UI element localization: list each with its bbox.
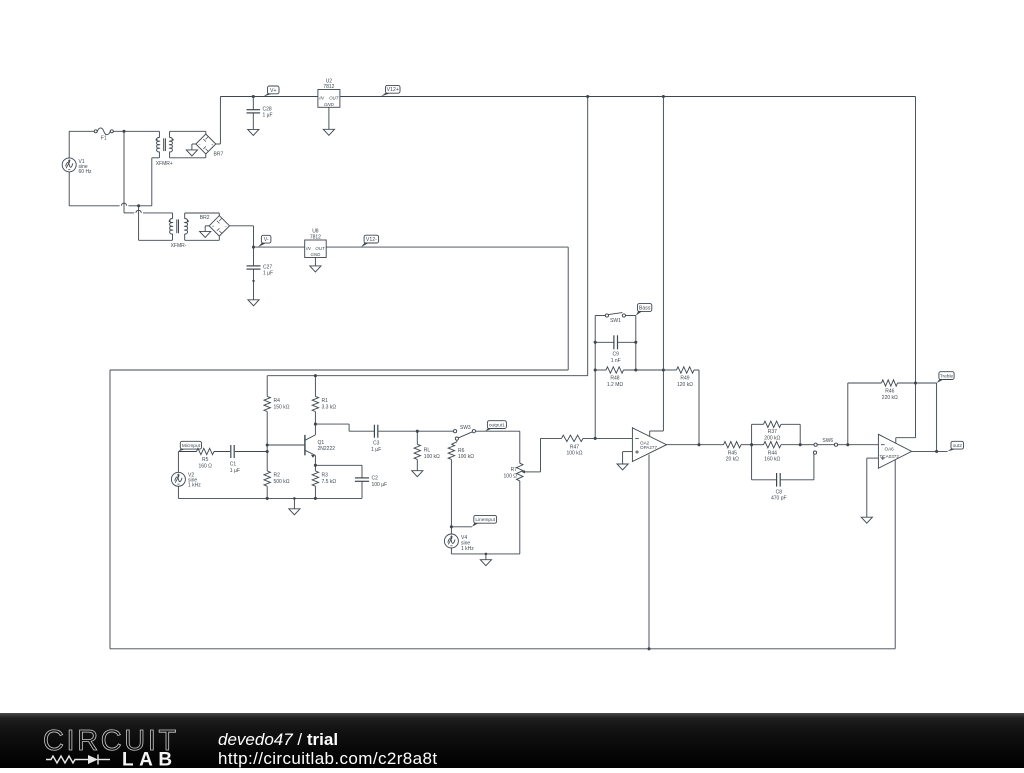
svg-text:R7: R7 (511, 467, 518, 473)
wire amp ground rail (178, 497, 362, 499)
svg-text:100 Ω: 100 Ω (504, 473, 518, 479)
wire V12- loop left and bottom (110, 370, 895, 649)
resistor R37 200k (752, 421, 801, 445)
flag output1 (485, 421, 506, 432)
node C9 left (594, 341, 597, 344)
svg-text:OUT: OUT (329, 95, 339, 100)
svg-text:C27: C27 (263, 264, 272, 270)
svg-text:XFMR-: XFMR- (171, 243, 187, 249)
ground at V4 rail (480, 554, 491, 566)
svg-text:R45: R45 (728, 450, 737, 456)
svg-text:R4: R4 (274, 398, 281, 404)
ground at BR2 (200, 226, 211, 238)
resistor R2 500k (264, 471, 290, 498)
node below C27 (252, 280, 254, 282)
wire V12- down right side (567, 247, 569, 370)
voltage source V2 sine 1kHz (171, 472, 201, 488)
svg-text:SW3: SW3 (460, 425, 471, 431)
capacitor C9 1nF (595, 335, 636, 364)
node C9 right (634, 341, 637, 344)
wire SW3 to R7 (476, 431, 520, 463)
wire V+ right side down to OA6 (896, 97, 916, 444)
svg-text:R37: R37 (768, 429, 777, 435)
node base divider junctions (266, 443, 269, 453)
wire collector to C3 (315, 424, 374, 431)
node R48 right (662, 368, 665, 371)
svg-text:60 Hz: 60 Hz (79, 169, 93, 175)
svg-text:220 kΩ: 220 kΩ (882, 395, 898, 401)
flag LineInput (451, 515, 496, 526)
wire SW3 to R6 (451, 440, 457, 444)
svg-text:Q1: Q1 (318, 440, 325, 446)
svg-text:R49: R49 (680, 376, 689, 382)
logo resistor-diode glyph (46, 755, 110, 765)
capacitor C27 1uF (247, 247, 274, 300)
op-amp OA6 TCA0372 (878, 434, 911, 468)
fuse F1 (94, 128, 113, 142)
resistor R49 120k (663, 367, 699, 445)
flag V+ (264, 86, 280, 97)
switch SW1 (595, 313, 636, 324)
svg-text:OA6: OA6 (885, 447, 895, 452)
svg-text:F1: F1 (101, 136, 107, 142)
node RL junction (416, 430, 419, 433)
wire BR7 output up to V+ rail (216, 97, 221, 145)
svg-text:1 kHz: 1 kHz (188, 483, 201, 489)
wire emitter row to C2 (315, 465, 362, 478)
svg-text:1 µF: 1 µF (263, 113, 273, 119)
svg-text:120 kΩ: 120 kΩ (677, 382, 693, 388)
wire OA2 plus to ground (617, 452, 632, 470)
flag V- (258, 235, 271, 247)
node V4 rail gnd (485, 553, 488, 556)
node R48 left (594, 368, 597, 371)
wire OA6 output (912, 450, 948, 452)
svg-text:R44: R44 (768, 450, 777, 456)
resistor R5 160 (197, 448, 231, 469)
wire OA2 Vminus stub (648, 455, 650, 649)
flag V12- (361, 235, 379, 247)
svg-text:output1: output1 (489, 423, 505, 429)
resistor R45 20k (724, 442, 752, 463)
svg-text:7812: 7812 (310, 234, 321, 240)
bridge rectifier BR7 (196, 134, 224, 158)
node network left (750, 443, 753, 446)
svg-text:V12-: V12- (366, 237, 377, 243)
svg-text:100 kΩ: 100 kΩ (424, 454, 440, 460)
transformer XFMR+ (152, 131, 174, 167)
svg-text:C2: C2 (372, 476, 379, 482)
resistor R1 3.3k (312, 376, 336, 424)
svg-text:100 kΩ: 100 kΩ (458, 454, 474, 460)
node emitter (314, 464, 317, 467)
node wire1 junction (137, 204, 140, 207)
ground at U8 (310, 258, 321, 272)
ground at U2 (323, 107, 334, 135)
flag V12+ (381, 85, 400, 96)
switch SW6 (813, 438, 837, 454)
ground at C28 (248, 129, 259, 135)
svg-text:C8: C8 (776, 489, 783, 495)
node LineInput junction (450, 525, 453, 528)
wire OA2 output row (667, 444, 724, 446)
svg-text:7812: 7812 (323, 84, 334, 90)
svg-text:OPA277: OPA277 (640, 445, 657, 450)
node gnd stub (293, 497, 296, 500)
wire base (267, 444, 305, 446)
node R48 mid (634, 368, 637, 371)
svg-text:R5: R5 (202, 457, 209, 463)
voltage regulator U2 7812 (318, 78, 340, 107)
op-amp OA2 OPA277 (632, 428, 666, 462)
capacitor C2 100uF (355, 476, 387, 499)
svg-text:GND: GND (324, 102, 335, 107)
voltage source V4 sine 1kHz (444, 527, 474, 554)
svg-text:V+: V+ (270, 88, 277, 94)
svg-text:R48: R48 (610, 376, 619, 382)
wire V2 to mic row (178, 452, 196, 499)
svg-text:C28: C28 (263, 106, 272, 112)
svg-text:150 kΩ: 150 kΩ (274, 404, 290, 410)
resistor R46 220k (848, 380, 937, 445)
node wireB junction (586, 95, 589, 98)
wire fuse junction down to XFMR- primary (124, 131, 173, 213)
ground at RL (412, 471, 423, 477)
svg-text:1.2 MΩ: 1.2 MΩ (607, 382, 624, 388)
svg-text:C9: C9 (612, 352, 619, 358)
svg-text:SW1: SW1 (610, 318, 621, 324)
svg-text:V12+: V12+ (387, 87, 399, 93)
svg-text:1 nF: 1 nF (611, 358, 621, 364)
svg-text:TCA0372: TCA0372 (880, 454, 900, 459)
capacitor C3 1uF (371, 425, 453, 453)
ground at BR7 (186, 144, 197, 156)
svg-text:V-: V- (264, 237, 269, 243)
node R46 V+ crossing (914, 381, 917, 384)
svg-text:Treble: Treble (940, 374, 954, 380)
node feedback tie (594, 437, 597, 440)
svg-text:C3: C3 (373, 441, 380, 447)
svg-text:LAB: LAB (122, 750, 178, 769)
wire V- rail (254, 246, 569, 248)
svg-text:20 kΩ: 20 kΩ (726, 457, 739, 463)
voltage source V1 sine 60 Hz (62, 158, 92, 175)
svg-text:R6: R6 (458, 448, 465, 454)
wire SW1 right down (635, 316, 637, 371)
svg-text:C1: C1 (230, 462, 237, 468)
transformer XFMR- (169, 213, 189, 249)
svg-text:SW6: SW6 (822, 438, 833, 444)
node R2 bottom (266, 497, 269, 500)
svg-text:R2: R2 (274, 473, 281, 479)
flag Treble (937, 372, 955, 383)
wire feedback left vertical (594, 316, 596, 439)
wire XFMR- secondary to BR2 (185, 213, 220, 240)
svg-text:160 kΩ: 160 kΩ (764, 457, 780, 463)
wire V+ rail top (220, 96, 915, 98)
svg-text:R46: R46 (885, 389, 894, 395)
ground at amp rail (289, 498, 300, 514)
wire SW6 to OA6 (838, 444, 879, 446)
svg-text:1 kHz: 1 kHz (461, 546, 474, 552)
svg-text:R3: R3 (322, 473, 329, 479)
node R3 bottom (314, 497, 317, 500)
flag Bass (636, 304, 652, 316)
bridge rectifier BR2 (200, 215, 230, 236)
wire Treble down to output (936, 383, 938, 451)
voltage regulator U8 7812 (305, 229, 327, 258)
potentiometer R7 100 (504, 463, 541, 554)
flag MicInput (178, 441, 201, 451)
wire V1 top to fuse (69, 131, 94, 158)
switch SW3 (454, 425, 476, 440)
node R1 top junction (314, 374, 317, 377)
node OA2 Vminus rail (647, 647, 650, 650)
svg-text:1 µF: 1 µF (371, 447, 381, 453)
wire V+ branch down to amp rail (267, 97, 588, 376)
node V- junction (252, 246, 255, 249)
resistor R3 7.5k (312, 465, 336, 498)
svg-text:BR7: BR7 (214, 152, 224, 158)
svg-text:LineInput: LineInput (475, 517, 495, 523)
resistor R44 160k (752, 442, 801, 463)
node out2 tie (935, 450, 938, 453)
flag out2 (948, 441, 964, 451)
wire network to SW6 (800, 444, 814, 446)
svg-text:100 µF: 100 µF (372, 482, 388, 488)
node fuse-output junction (122, 130, 125, 133)
wire XFMR+ secondary to BR7 (170, 131, 206, 158)
resistor RL 100k (414, 431, 440, 471)
svg-text:200 kΩ: 200 kΩ (764, 436, 780, 442)
node OA2 supply junction (662, 95, 665, 98)
svg-text:3.3 kΩ: 3.3 kΩ (322, 404, 337, 410)
transistor Q1 2N2222 (305, 424, 335, 465)
node network right (799, 443, 802, 446)
ground at C27 (248, 300, 259, 306)
wire V1 bottom with hop (69, 158, 152, 206)
wire BR2 output to V- node (230, 226, 254, 247)
wire OA2 supply vertical (650, 97, 664, 437)
svg-text:OUT: OUT (315, 246, 325, 251)
resistor R47 100k (562, 435, 633, 456)
wire OA6 Vminus stub (894, 460, 896, 649)
svg-text:R1: R1 (322, 398, 329, 404)
capacitor C8 470pF (752, 445, 814, 502)
wire fuse to XFMR+ primary top (113, 130, 159, 132)
node collector (314, 423, 317, 426)
svg-text:XFMR+: XFMR+ (156, 161, 173, 167)
svg-text:500 kΩ: 500 kΩ (274, 479, 290, 485)
wire R7 wiper to R47 (541, 438, 562, 472)
wire OA6 plus to ground (861, 458, 878, 523)
svg-text:out2: out2 (953, 443, 963, 449)
capacitor C28 1uF (247, 97, 273, 130)
node C28 junction (252, 95, 255, 98)
wire XFMR- primary bottom return (139, 206, 173, 241)
svg-text:RL: RL (424, 448, 431, 454)
node R46 tie (846, 443, 849, 446)
svg-text:BR2: BR2 (200, 215, 210, 221)
svg-text:GND: GND (311, 252, 322, 257)
resistor R4 150k (264, 376, 290, 471)
capacitor C1 1uF (230, 445, 267, 474)
svg-text:Bass: Bass (639, 305, 651, 311)
svg-text:R47: R47 (570, 444, 579, 450)
svg-text:1 µF: 1 µF (230, 468, 240, 474)
resistor R48 1.2M (595, 367, 663, 388)
svg-text:7.5 kΩ: 7.5 kΩ (322, 479, 337, 485)
node R49 output tie (697, 443, 700, 446)
svg-text:470 pF: 470 pF (771, 496, 787, 502)
wire V4 ground rail (451, 553, 519, 555)
svg-text:100 kΩ: 100 kΩ (567, 451, 583, 457)
resistor R6 100k (448, 444, 474, 527)
svg-text:160 Ω: 160 Ω (198, 463, 212, 469)
svg-text:2N2222: 2N2222 (318, 446, 336, 452)
svg-text:1 µF: 1 µF (263, 271, 273, 277)
